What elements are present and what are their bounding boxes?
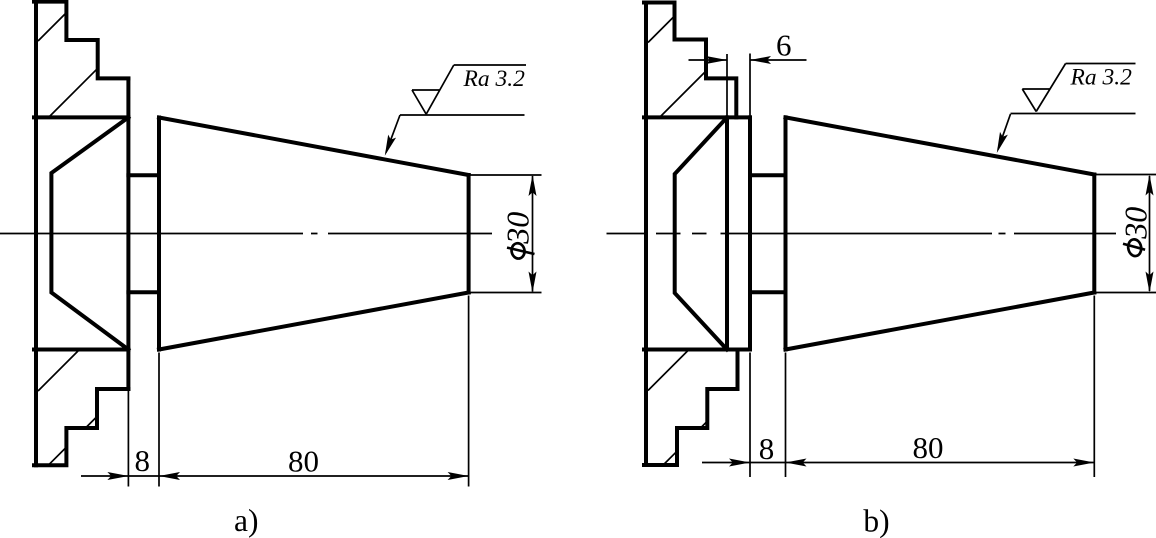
extension lines dim 6 (b) (727, 54, 750, 175)
workpiece cone right end (b) (1092, 175, 1096, 293)
arrow phi30 top (b) (1146, 175, 1154, 196)
arrow phi30 bottom (b) (1146, 272, 1154, 293)
Ra leader line (b) (998, 114, 1011, 150)
svg-text:8: 8 (759, 431, 775, 466)
svg-text:30: 30 (500, 212, 536, 245)
arrow 80 left (a) (159, 472, 180, 480)
arrow 6 left (b) (706, 56, 727, 64)
workpiece cone bottom edge (a) (159, 293, 469, 350)
Ra check symbol triangle (b) (1022, 64, 1065, 112)
chuck face top horizontal (b) (644, 115, 750, 119)
chuck body left vertical (a) (34, 2, 38, 466)
extension lines phi30 (a) (470, 175, 542, 293)
Ra top line (a) (454, 64, 526, 66)
centerline (b) (607, 233, 1117, 235)
Ra leader shoulder (b) (1011, 113, 1136, 115)
chuck face top horizontal (a) (34, 115, 128, 119)
Ra leader line (a) (386, 115, 400, 153)
arrow 80 left (b) (786, 459, 807, 467)
dimension line 80 (b) (786, 462, 1095, 464)
chuck face bottom horizontal (b) (644, 348, 750, 352)
workpiece cone bottom edge (b) (786, 293, 1095, 350)
arrow 8 left (b) (729, 459, 750, 467)
centerline (a) (0, 233, 492, 235)
hatching bottom jaw (a) (38, 350, 97, 466)
workpiece cone left edge (b) (784, 117, 788, 349)
workpiece cone right end (a) (467, 175, 471, 293)
dimension line phi30 (a) (532, 176, 534, 292)
hatching top jaw (a) (38, 13, 98, 118)
dimension line 6 left (b) (689, 59, 728, 61)
workpiece spigot bottom edge (b) (750, 290, 786, 294)
Ra leader shoulder (a) (400, 114, 525, 116)
svg-text:80: 80 (288, 444, 319, 479)
arrow 80 right (a) (448, 472, 469, 480)
dimension line 6 right (b) (750, 59, 807, 61)
workpiece cone top edge (b) (786, 117, 1095, 174)
arrow Ra leader (b) (993, 132, 1008, 155)
extension lines phi30 (b) (1096, 175, 1156, 293)
svg-text:30: 30 (1118, 207, 1154, 240)
workpiece big-end hexagon section (b) (675, 117, 727, 349)
dimension line 8 tail (a) (81, 475, 128, 477)
workpiece spigot bottom edge (a) (128, 290, 159, 294)
arrow 6 right (b) (750, 56, 771, 64)
chuck face bottom horizontal (a) (34, 348, 128, 352)
chuck face vertical (a) (126, 79, 130, 390)
extension line x=749.5 (b) (749, 353, 751, 478)
svg-text:6: 6 (776, 28, 792, 63)
chuck face vertical (b) (748, 117, 752, 349)
extension line x=159 (a) (158, 353, 160, 487)
chuck top jaw profile (a) (34, 2, 128, 79)
hatching top jaw (b) (648, 16, 706, 117)
workpiece cone left edge (a) (157, 118, 161, 350)
chuck bottom jaw profile (b) (644, 350, 738, 466)
arrow phi30 top (a) (529, 175, 537, 196)
dimension line 8 middle (a) (128, 475, 159, 477)
dimension line 8 middle (b) (750, 462, 786, 464)
Ra check symbol triangle (a) (412, 65, 454, 114)
arrow Ra leader (a) (381, 135, 396, 158)
arrow 8 left (a) (107, 472, 128, 480)
workpiece spigot top edge (a) (128, 173, 159, 177)
svg-text:8: 8 (135, 443, 151, 478)
svg-text:80: 80 (913, 430, 944, 465)
svg-text:b): b) (863, 504, 889, 538)
chuck body left vertical (b) (644, 3, 648, 466)
Ra top line (b) (1066, 63, 1136, 65)
workpiece spigot top edge (b) (750, 173, 786, 177)
extension line x=468.6 (a) (468, 296, 470, 487)
dimension line phi30 (b) (1149, 176, 1151, 291)
svg-text:a): a) (234, 503, 258, 538)
hatching bottom jaw (b) (648, 350, 707, 466)
chuck top jaw profile (b) (644, 3, 736, 118)
extension line x=784.9 (b) (785, 353, 787, 478)
svg-text:Ra 3.2: Ra 3.2 (1070, 65, 1133, 91)
extension line x=128.4 (a) (127, 391, 129, 487)
dimension line 80 (a) (159, 475, 469, 477)
workpiece big-end hexagon section (a) (51, 117, 128, 349)
arrow phi30 bottom (a) (529, 272, 537, 293)
workpiece cone top edge (a) (159, 118, 469, 176)
workpiece big-end hexagon right edge (b) (725, 117, 729, 349)
chuck bottom jaw profile (a) (34, 389, 128, 465)
extension line x=1094.3 (b) (1093, 296, 1095, 478)
svg-text:Ra 3.2: Ra 3.2 (463, 66, 526, 92)
dimension line 8 tail (b) (702, 462, 750, 464)
arrow 80 right (b) (1073, 459, 1094, 467)
